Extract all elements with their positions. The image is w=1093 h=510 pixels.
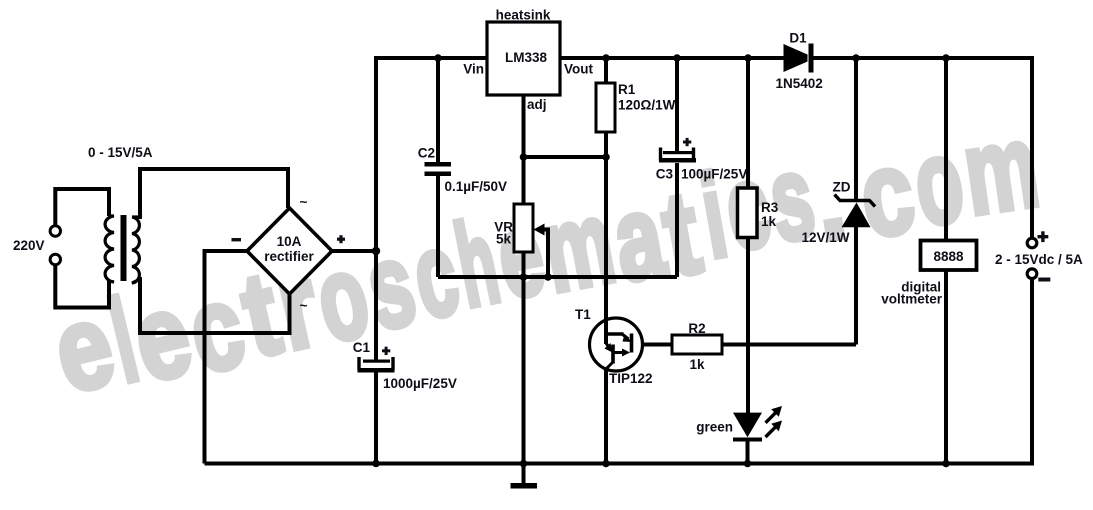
digital voltmeter	[881, 241, 976, 307]
wire adj horizontal	[524, 155, 607, 159]
wire left vertical from top bus to rectifier + node	[374, 56, 378, 251]
svg-text:D1: D1	[789, 31, 807, 46]
terminal 220V upper	[50, 226, 60, 236]
svg-text:12V/1W: 12V/1W	[802, 230, 850, 245]
svg-text:voltmeter: voltmeter	[881, 292, 943, 307]
label output -	[1038, 278, 1050, 282]
svg-text:0 - 15V/5A: 0 - 15V/5A	[88, 145, 153, 160]
wire rectifier + output	[332, 249, 378, 253]
svg-text:TIP122: TIP122	[609, 371, 653, 386]
svg-text:0.1µF/50V: 0.1µF/50V	[445, 179, 508, 194]
wire VR bottom lead	[522, 252, 526, 277]
node top C2	[434, 54, 442, 62]
svg-text:adj: adj	[527, 97, 547, 112]
label + rectifier	[337, 238, 345, 241]
wire VR node to bottom bus	[522, 277, 526, 464]
svg-text:120Ω/1W: 120Ω/1W	[618, 98, 676, 113]
wire T1 base to R2	[643, 343, 673, 347]
svg-text:5k: 5k	[496, 232, 512, 247]
node adj right	[602, 153, 610, 161]
svg-text:ZD: ZD	[833, 180, 851, 195]
wire C1 top lead	[374, 251, 378, 360]
wire bottom bus	[205, 462, 1033, 466]
node bottom voltmeter	[942, 460, 950, 468]
terminal 220V lower	[50, 254, 60, 264]
node bottom LED	[744, 460, 752, 468]
wire mid horizontal C2 to C3	[438, 275, 677, 279]
wire top bus middle segment	[560, 56, 784, 60]
label - rectifier	[232, 238, 242, 241]
wire R1 top lead	[604, 58, 608, 83]
node bottom ground	[520, 460, 528, 468]
ground	[511, 483, 538, 489]
node top R3	[744, 54, 752, 62]
wire VR top lead	[522, 157, 526, 204]
wire LM338 adj pin	[522, 95, 526, 157]
svg-text:1k: 1k	[761, 214, 777, 229]
capacitor C1	[353, 340, 457, 391]
svg-text:LM338: LM338	[505, 50, 548, 65]
svg-text:C1: C1	[353, 340, 371, 355]
wire zener bottom lead	[854, 227, 858, 345]
node top ZD	[852, 54, 860, 62]
node top voltmeter	[942, 54, 950, 62]
node adj left	[520, 153, 528, 161]
wire VR wiper	[541, 230, 548, 278]
node wiper bottom	[544, 273, 552, 281]
wire C1 bottom lead	[374, 371, 378, 464]
svg-text:100µF/25V: 100µF/25V	[681, 167, 747, 182]
wire T1 emitter	[604, 368, 608, 464]
capacitor C3	[656, 138, 748, 182]
svg-text:R2: R2	[688, 321, 705, 336]
wire left vertical to bottom bus	[203, 249, 207, 464]
svg-text:10A: 10A	[277, 234, 302, 249]
svg-text:T1: T1	[575, 307, 591, 322]
svg-text:R3: R3	[761, 200, 779, 215]
resistor R2	[672, 321, 722, 372]
svg-text:C2: C2	[418, 146, 435, 161]
transformer T primary loop wires	[55, 189, 109, 308]
wire C3 top lead	[675, 58, 679, 152]
wire R3 to LED	[746, 238, 750, 413]
watermark electroschematics.com	[42, 99, 1046, 418]
wire top bus left segment	[376, 56, 487, 60]
zener diode ZD	[802, 180, 876, 246]
wire right vertical to + terminal	[1030, 56, 1034, 239]
wire voltmeter bottom lead	[944, 271, 948, 464]
svg-text:R1: R1	[618, 82, 636, 97]
node top C3	[673, 54, 681, 62]
LED green	[696, 406, 782, 442]
svg-text:rectifier: rectifier	[264, 249, 314, 264]
svg-text:220V: 220V	[13, 238, 45, 253]
wire voltmeter top lead	[944, 58, 948, 240]
transformer secondary loop wires	[140, 169, 290, 333]
wire C2 top lead	[436, 58, 440, 162]
svg-text:heatsink: heatsink	[496, 8, 551, 23]
svg-text:green: green	[696, 420, 733, 435]
node bottom C1	[372, 460, 380, 468]
node top R1	[602, 54, 610, 62]
svg-text:C3: C3	[656, 167, 674, 182]
bridge rectifier	[247, 208, 332, 294]
wire C3 bottom lead	[675, 163, 679, 277]
resistor R1	[596, 82, 676, 132]
svg-text:1000µF/25V: 1000µF/25V	[383, 376, 457, 391]
regulator U1 LM338	[463, 8, 593, 113]
node VR bottom	[520, 273, 528, 281]
wire rectifier - to left	[205, 249, 248, 253]
diode D1 1N5402	[776, 31, 823, 92]
transformer primary winding	[105, 216, 114, 282]
svg-text:Vin: Vin	[463, 62, 484, 77]
potentiometer VR	[494, 204, 544, 252]
wire R1 bottom lead	[604, 132, 608, 157]
wire zener top lead	[854, 58, 858, 199]
svg-text:2 - 15Vdc / 5A: 2 - 15Vdc / 5A	[995, 252, 1083, 267]
svg-text:8888: 8888	[933, 249, 964, 264]
svg-text:~: ~	[300, 195, 308, 210]
output terminal +	[1027, 238, 1037, 248]
transformer secondary winding	[132, 217, 140, 283]
wire LED bottom lead	[746, 441, 750, 464]
output terminal -	[1027, 269, 1037, 279]
svg-text:1N5402: 1N5402	[776, 76, 823, 91]
wire ground stub	[522, 464, 526, 484]
node rectifier plus	[372, 247, 380, 255]
wire T1 collector	[604, 157, 608, 344]
wire C2 bottom lead	[436, 176, 440, 277]
transistor Q1 TIP122	[575, 307, 653, 386]
wire R3 top lead	[746, 58, 750, 189]
wire R2 to zener	[722, 343, 856, 347]
node bottom T1	[602, 460, 610, 468]
svg-text:1k: 1k	[689, 357, 705, 372]
svg-text:Vout: Vout	[564, 62, 593, 77]
transformer core	[121, 215, 127, 281]
wire - terminal to bottom bus	[1030, 279, 1034, 466]
label output +	[1038, 235, 1049, 238]
resistor R3	[738, 188, 779, 238]
wire top bus right segment	[812, 56, 1032, 60]
capacitor C2	[418, 146, 507, 195]
svg-text:~: ~	[300, 298, 308, 313]
